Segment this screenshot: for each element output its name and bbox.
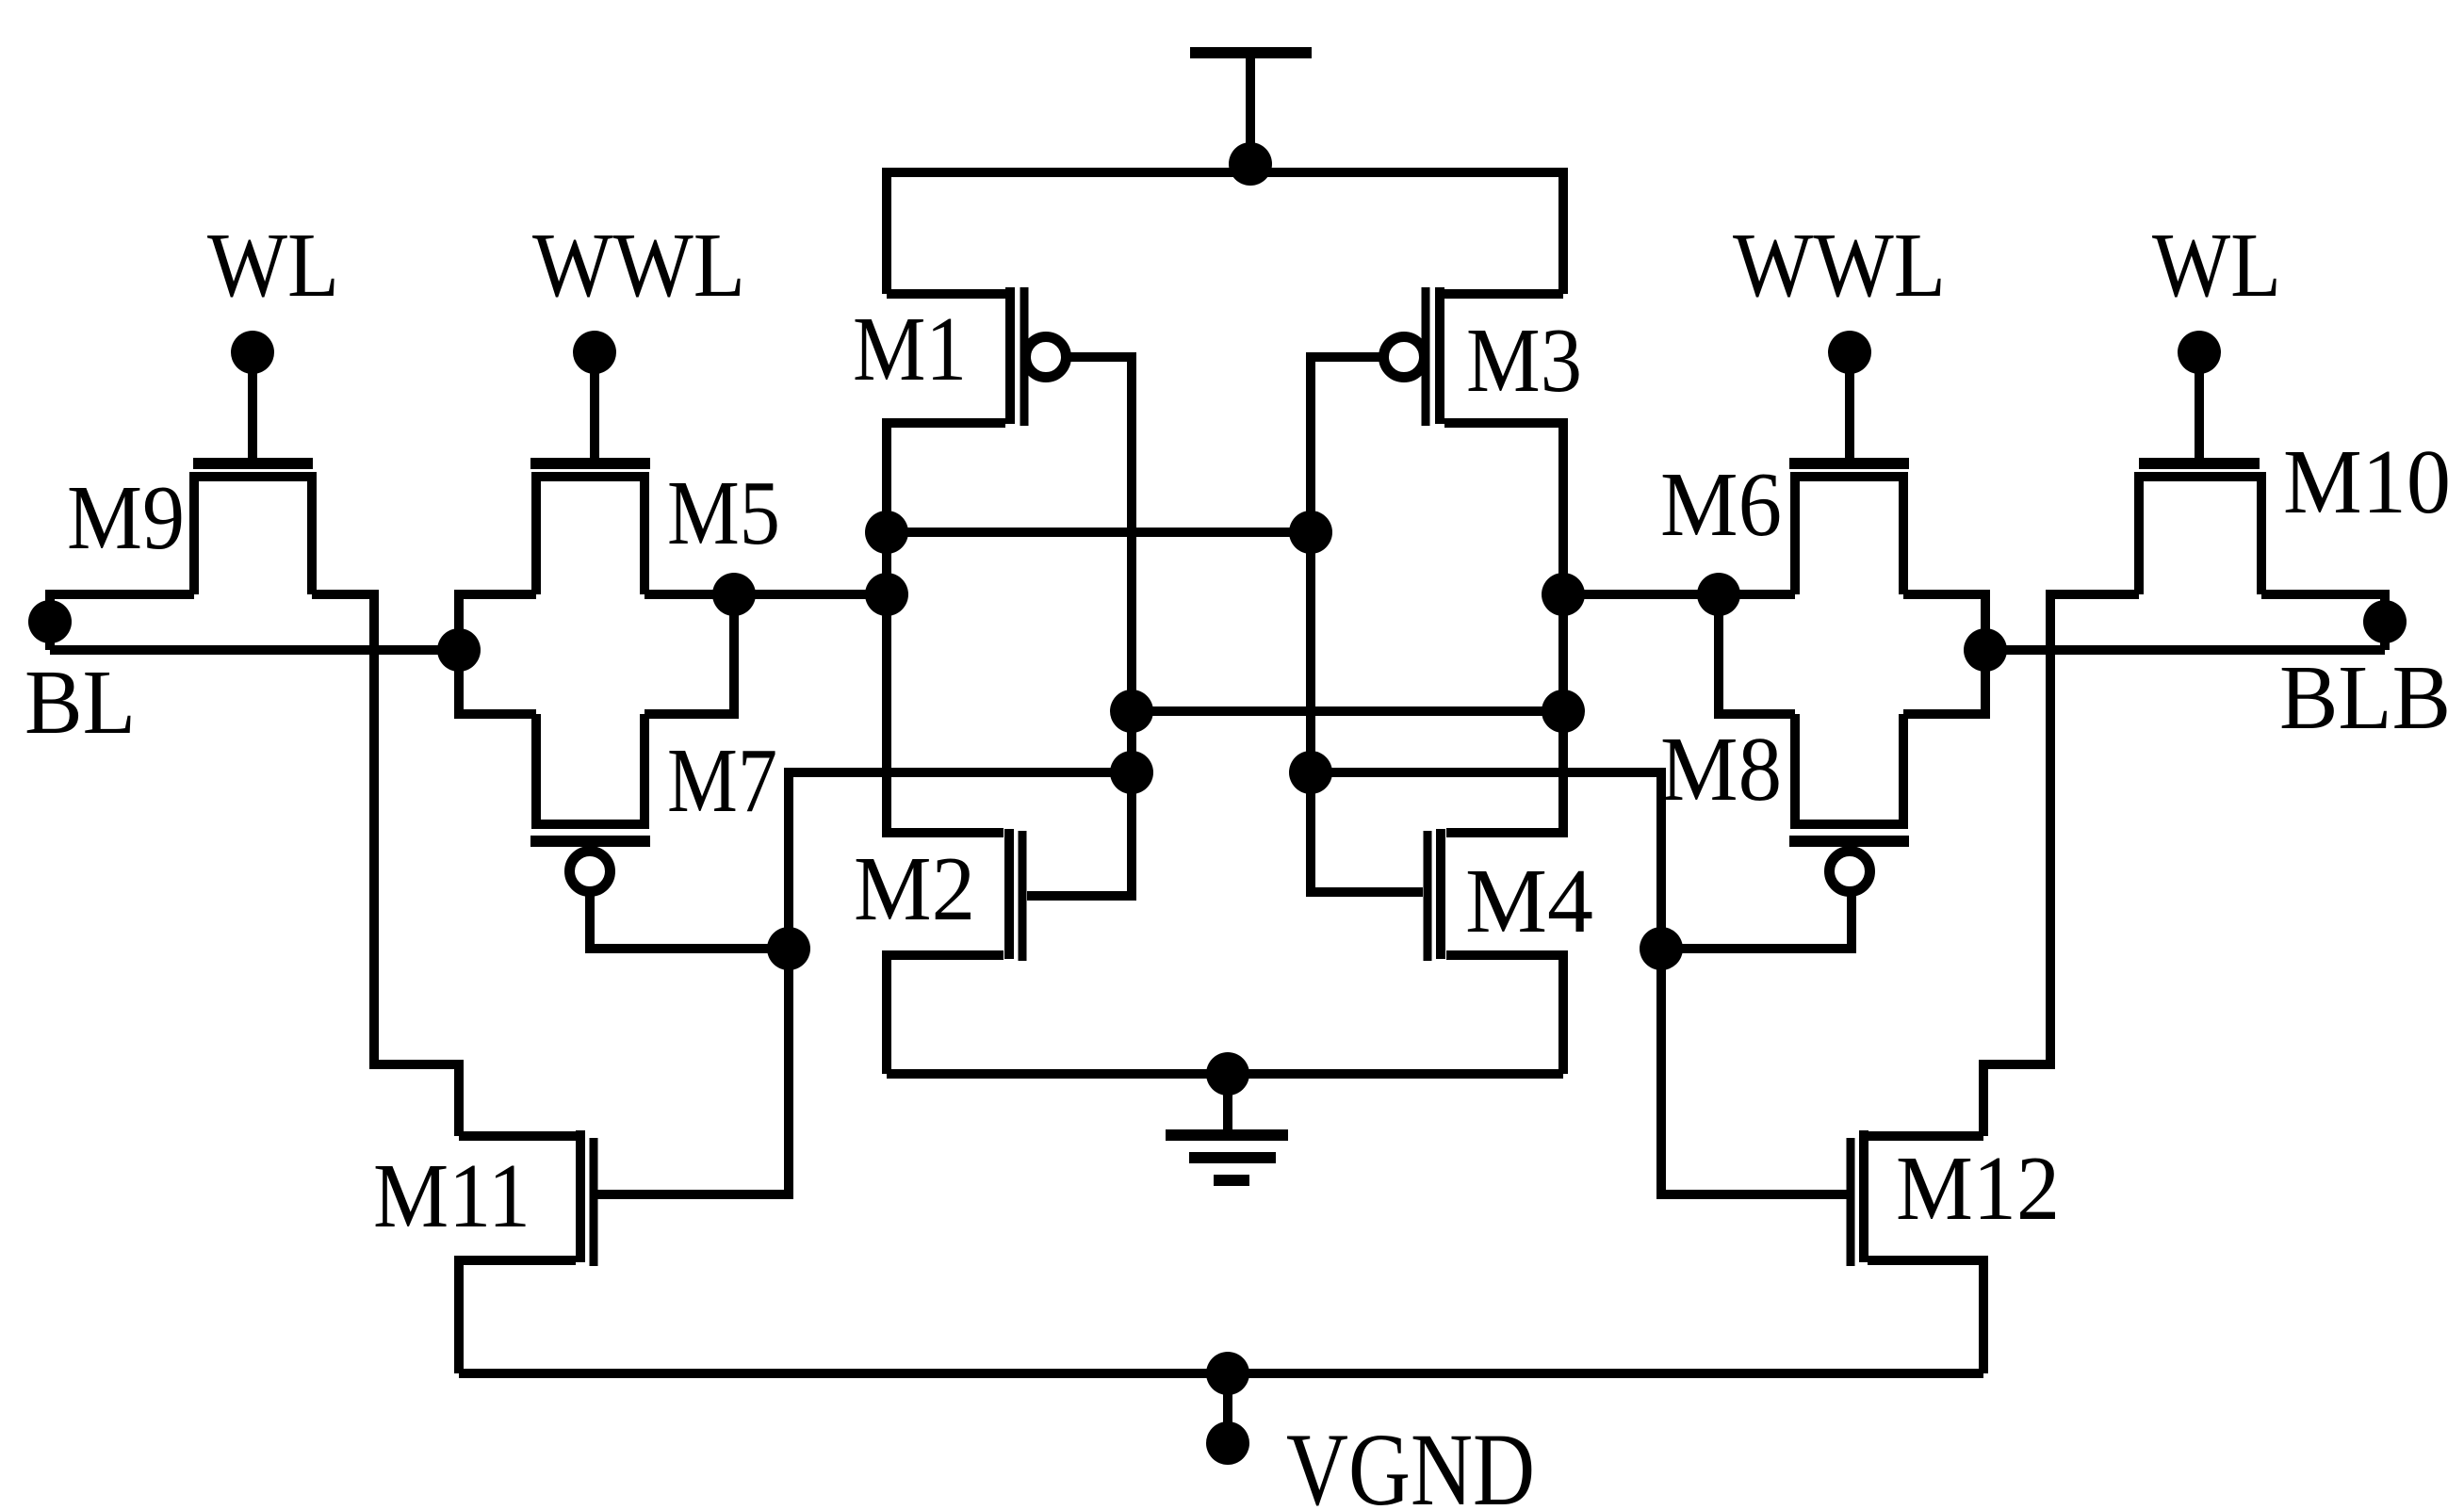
svg-text:WL: WL: [2152, 215, 2281, 316]
svg-text:M12: M12: [1896, 1138, 2060, 1239]
svg-text:M2: M2: [854, 838, 975, 939]
svg-text:M5: M5: [667, 463, 780, 563]
svg-text:M10: M10: [2283, 431, 2451, 532]
svg-text:M8: M8: [1660, 719, 1782, 820]
svg-text:M7: M7: [667, 730, 777, 831]
svg-text:WWL: WWL: [1733, 215, 1946, 316]
svg-text:M9: M9: [67, 467, 185, 568]
svg-text:M3: M3: [1466, 310, 1582, 411]
svg-text:VGND: VGND: [1286, 1412, 1535, 1510]
svg-text:BLB: BLB: [2279, 647, 2451, 748]
svg-text:M4: M4: [1465, 851, 1593, 951]
svg-text:WWL: WWL: [532, 215, 745, 316]
svg-text:BL: BL: [24, 652, 136, 753]
svg-text:M6: M6: [1660, 454, 1782, 555]
svg-text:WL: WL: [207, 215, 339, 316]
svg-text:M11: M11: [373, 1145, 530, 1246]
svg-text:M1: M1: [853, 299, 967, 399]
